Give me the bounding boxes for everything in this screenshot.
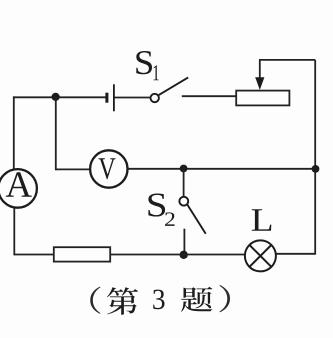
wire junction to S2 contact <box>183 169 185 197</box>
caption char ti (题) <box>181 287 213 312</box>
caption numeral 3 <box>153 290 164 310</box>
node B (right junction) <box>312 165 320 173</box>
label S1 subscript 1 <box>154 65 159 80</box>
caption close paren <box>219 285 230 312</box>
ammeter A1 circle <box>0 169 37 208</box>
ammeter A1 letter <box>6 172 32 197</box>
label S2 subscript 2 <box>165 212 175 226</box>
wire junction down to voltmeter row <box>55 97 57 170</box>
voltmeter V1 circle <box>90 150 127 187</box>
node A (junction top left) <box>52 93 60 101</box>
switch S1 <box>151 77 189 102</box>
caption char di (第) <box>107 287 138 315</box>
wire resistor to lamp <box>110 254 245 256</box>
rheostat R1 <box>236 91 289 106</box>
wire after S1 to rheostat <box>182 95 237 97</box>
switch S2 <box>179 197 205 234</box>
wire ammeter to bottom wire <box>13 207 15 255</box>
caption open paren <box>90 287 100 314</box>
resistor R2 <box>54 247 110 261</box>
rheostat wiper arrow <box>255 77 264 90</box>
wire top left horizontal <box>13 96 106 98</box>
label S1 letter S <box>136 51 152 74</box>
battery cell B1 <box>107 84 114 111</box>
wire wiper vertical <box>259 60 261 79</box>
wire battery to switch S1 <box>115 97 151 99</box>
label S2 letter S <box>148 194 165 217</box>
wire lamp to right vertical <box>276 253 315 255</box>
wire voltmeter right to right junction <box>128 168 316 170</box>
label L <box>252 209 271 231</box>
lamp L <box>245 240 276 271</box>
wire top right horizontal <box>259 59 315 61</box>
wire right vertical <box>314 60 316 255</box>
node C (S2 top junction) <box>180 165 188 173</box>
wire to voltmeter left <box>56 168 91 170</box>
wire bottom left horizontal <box>14 254 54 256</box>
node D (bottom junction) <box>180 251 188 259</box>
wire S2 lower vertical <box>183 229 185 255</box>
voltmeter V1 letter <box>99 158 116 179</box>
wire left vertical <box>13 96 15 169</box>
